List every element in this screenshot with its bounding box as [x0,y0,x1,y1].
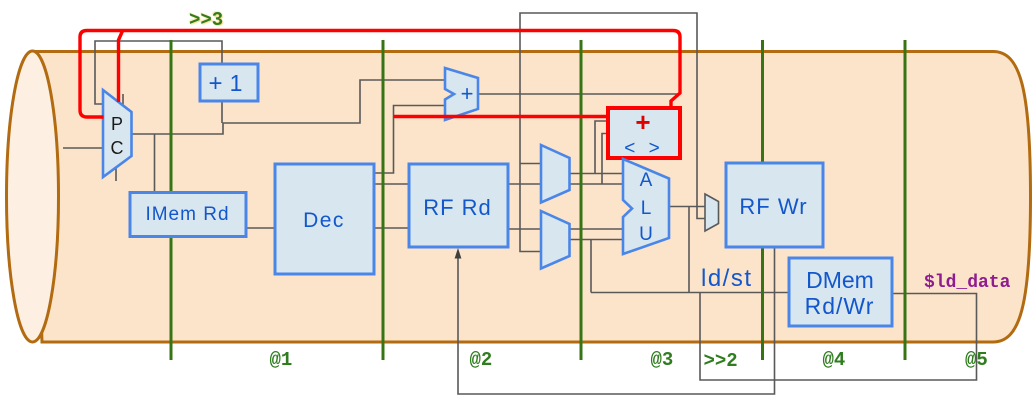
svg-text:L: L [641,198,652,219]
svg-text:RF Rd: RF Rd [423,195,492,220]
wire PC external input [63,147,103,149]
wire bypass mux B output to ALU [570,239,624,241]
svg-text:< >: < > [624,138,663,159]
wire PC to IMem [154,134,156,192]
register IMem Rd [130,193,246,237]
wire DMem load data return loop [700,293,977,381]
stage line @4 [761,40,764,360]
red wire immediate into branch unit [394,115,609,118]
wire Dec to RF Rd port 2 [374,227,409,229]
stage line @3 [580,40,583,360]
wire branch adder output [478,93,679,95]
bypass mux B [541,211,570,269]
wire +1 output down [221,101,223,123]
svg-text:A: A [640,170,653,191]
svg-text:+: + [461,81,474,106]
svg-text:U: U [639,224,653,245]
stage line @2 [382,40,385,360]
mux PC [103,90,132,177]
wire PC select stub below [115,168,117,181]
red branch feedback wire >>3 [80,31,680,118]
svg-text:Dec: Dec [303,209,345,232]
register RF Wr [726,163,823,247]
pipeline cylinder left cap [7,51,59,342]
stage line @1 [170,40,173,360]
adder +1 [200,64,258,101]
wire writeback RF Wr to RF Rd [458,247,775,394]
svg-text:@3: @3 [651,349,674,371]
svg-text:@2: @2 [470,349,493,371]
wire ALU output to writeback mux [669,206,705,208]
wire tap rs2 to branch unit [602,134,608,185]
wire RF Rd out 2 to ALU (under bypass mux B) [507,228,623,230]
red branch feedback branch into PC top [119,31,123,102]
bypass mux A [541,145,570,203]
svg-text:>>3: >>3 [189,9,223,31]
svg-text:ld/st: ld/st [701,265,753,292]
wire Dec immediate to branch adder input B [374,106,445,174]
wire forwarding stub to bypass mux A [520,163,541,165]
svg-text:IMem Rd: IMem Rd [145,204,229,225]
svg-text:@5: @5 [965,349,988,371]
branch unit + <> [608,108,680,158]
wire PC output to branch adder input A [132,80,446,134]
writeback mux [705,194,719,231]
svg-text:+: + [635,107,650,137]
svg-text:RF Wr: RF Wr [739,194,807,219]
svg-text:@1: @1 [270,349,293,371]
svg-text:P: P [111,114,123,134]
svg-text:$ld_data: $ld_data [924,273,1011,293]
svg-text:@4: @4 [823,349,846,371]
wire tap rs1 to branch unit [595,121,608,174]
svg-text:DMem: DMem [806,267,874,293]
wire PC loop (PC out up and around to +1) [95,41,222,104]
arrowhead into RF Rd [455,248,462,259]
wire ld/st to DMem [591,292,789,294]
svg-text:C: C [111,138,124,158]
register RF Rd [409,164,508,247]
wire RF Rd out 1 to ALU (under bypass mux A) [507,183,623,185]
wire IMem to Dec [246,227,275,229]
stage line @5 [904,40,907,360]
memory DMem Rd/Wr [789,258,892,326]
wire forwarding loop rail [520,13,705,252]
wire bypass mux A output to ALU [570,173,624,175]
wire Dec to RF Rd port 1 [374,183,409,185]
adder branch target [445,68,478,120]
wire ld/st address tap down [688,207,690,293]
svg-text:1: 1 [230,70,243,96]
svg-text:+: + [208,70,222,97]
decoder Dec [275,164,374,274]
pipeline cylinder body [33,52,1031,343]
svg-text:>>2: >>2 [704,350,738,372]
wire store data tap down [590,240,592,293]
wire PC stub top right [122,94,124,105]
ALU [623,159,669,254]
svg-text:Rd/Wr: Rd/Wr [805,293,875,319]
